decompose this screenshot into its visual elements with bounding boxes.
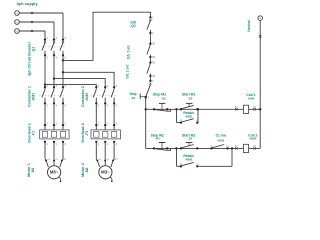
svg-text:-Q2: -Q2 [130,24,136,28]
wire retain2 down [176,148,178,166]
svg-text:-S1: -S1 [131,96,136,100]
wire OL2 to S1 [149,76,151,81]
node retain2 rejoin [231,147,233,149]
wire to overload [44,103,46,129]
svg-text:-KM2: -KM2 [185,157,193,161]
wire pole2 down [53,55,55,87]
overload F1 [40,124,69,146]
link mark rung2 A2 [253,145,256,150]
corner rung2 left [145,147,147,149]
wire pole3 down [62,55,64,87]
svg-text:-F2: -F2 [85,131,89,136]
wire control feed [63,12,150,60]
wire motor lead W1 [60,142,67,167]
overload contact OL1 [147,43,156,60]
svg-text:-Q1: -Q1 [32,47,36,53]
svg-text:O/L 2 o/c: O/L 2 o/c [126,64,130,78]
wire to overload [62,103,64,129]
wire phase3 to KM2 [63,72,114,87]
wire rung2 [146,147,244,149]
wire L1 drop [62,13,64,40]
stop button S4 [153,143,171,151]
contactor KM1 pole 2 [51,86,58,108]
link mark L2 [31,21,33,23]
wire to overload [113,103,115,129]
coil KM2 [243,144,248,152]
breaker Q1 mech link [42,46,65,48]
wire phase1 to KM2 [45,85,96,88]
svg-text:-KM1: -KM1 [217,139,225,143]
wire motor lead U1 [45,142,51,167]
overload F2 [91,124,120,146]
node neutral rung1 [259,108,261,110]
aux contact C1 KM1 [210,145,229,150]
contactor KM2 pole 2 [102,86,109,108]
svg-text:-S2: -S2 [161,96,166,100]
motor M1 [48,166,62,182]
wire L3 [19,30,45,32]
node phase3 tap [62,71,64,73]
circuit breaker Q1 pole 2 [51,38,58,59]
svg-text:-KM1: -KM1 [185,115,193,119]
svg-text:Neutral: Neutral [247,20,251,31]
node retain2 tap [175,147,177,149]
motor M2 [99,166,113,182]
wire rung1 [146,108,244,110]
neutral rail [259,20,261,148]
wire phase2 to KM2 [54,79,105,88]
node rung1 left [145,108,147,110]
wire coil1 to neutral [249,108,261,110]
svg-text:-KM2: -KM2 [249,137,257,141]
link mark rung1 A2 [253,106,256,111]
coil KM1 [243,105,248,113]
wire rail to rung2 [145,98,147,149]
circuit breaker Q1 pole 3 [60,38,67,59]
start button S3 [180,103,199,110]
contactor KM2 pole 1 [93,86,100,108]
svg-text:-S5: -S5 [188,137,193,141]
wire retain2 up [231,148,233,166]
wire to overload [95,103,97,129]
supply terminal L2 [15,20,20,25]
link mark rung2 A1 [235,145,238,150]
svg-text:-S4: -S4 [155,137,160,141]
svg-text:3ph Circuit Breaker: 3ph Circuit Breaker [27,41,31,76]
svg-text:M3~: M3~ [50,170,59,175]
contactor KM1 mech link [39,95,65,97]
svg-text:O/L 1 o/c: O/L 1 o/c [126,45,130,59]
circuit breaker Q2 [147,16,154,35]
node retain1 tap [175,108,177,110]
wire OL1 to OL2 [149,57,151,63]
svg-text:M3~: M3~ [101,170,110,175]
wire L2 [19,21,54,23]
node retain1 rejoin [197,108,199,110]
svg-text:C1 n/o: C1 n/o [216,133,226,137]
wire Q2 to OL1 [149,33,151,44]
link mark rung1 A1 [235,106,238,111]
wire motor lead V1 [53,142,59,166]
contactor KM2 mech link [90,95,116,97]
svg-text:-S3: -S3 [188,96,193,100]
stop button S2 [153,103,171,111]
circuit breaker Q1 pole 1 [42,38,49,59]
supply terminal L1 [15,11,20,16]
retain contact KM2 [177,162,233,167]
contactor KM2 pole 3 [111,86,118,108]
svg-text:-M2: -M2 [85,167,89,173]
svg-text:-KM1: -KM1 [247,96,255,100]
neutral terminal N [258,16,263,21]
link mark neutral [259,35,262,38]
wire to overload [53,103,55,129]
node phase2 tap [53,77,55,79]
svg-text:3ph supply: 3ph supply [16,1,38,6]
svg-text:N: N [259,17,261,20]
link mark L1 [31,12,33,14]
wire retain1 down [176,109,178,122]
contactor KM1 pole 1 [42,86,49,108]
svg-text:-F1: -F1 [31,131,35,136]
wire motor lead V1 [104,142,110,166]
wire L3 drop [44,31,46,40]
wire L1 [19,12,63,14]
svg-text:-KM2: -KM2 [85,93,89,101]
retain contact KM1 [177,119,200,124]
overload contact OL2 [147,61,156,78]
wire coil2 to neutral [249,147,261,149]
contactor KM1 pole 3 [60,86,67,108]
wire motor lead W1 [111,142,118,167]
wire motor lead U1 [96,142,102,167]
link mark L3 [31,30,33,32]
svg-text:-KM1: -KM1 [31,93,35,101]
start button S5 [180,143,199,150]
supply terminal L3 [15,29,20,34]
node control tap [62,59,64,61]
stop button S1 [140,80,154,100]
svg-text:-M1: -M1 [31,167,35,173]
wire retain1 up [197,109,199,122]
wire L2 drop [53,22,55,40]
wire to overload [104,103,106,129]
node phase1 tap [44,83,46,85]
wire pole1 down [44,55,46,87]
